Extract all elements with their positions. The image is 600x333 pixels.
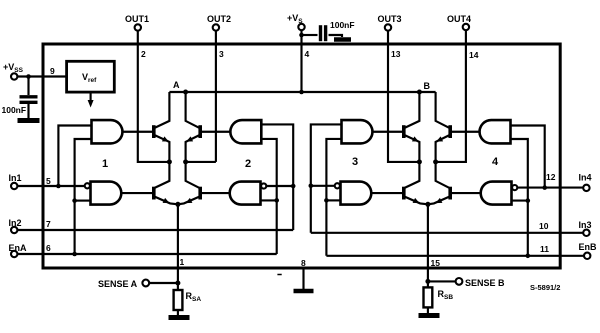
transistor Q6 base bar	[448, 125, 452, 138]
wire +Vs rail	[169, 91, 435, 93]
resistor RSA	[174, 290, 183, 310]
gate 3 upper AND	[342, 120, 373, 143]
transistor Q2 base bar	[198, 125, 202, 138]
svg-text:OUT1: OUT1	[125, 14, 149, 24]
transistor Q4 collector	[186, 162, 200, 188]
svg-text:8: 8	[301, 258, 306, 268]
arrow Q7 emitter	[413, 198, 420, 203]
wire gate3 lower output	[371, 192, 402, 194]
svg-text:S-5891/2: S-5891/2	[530, 283, 560, 292]
transistor Q3 emitter	[155, 197, 178, 205]
svg-text:EnB: EnB	[579, 242, 598, 252]
wire In1 riser	[58, 126, 91, 187]
wire cap to ground top	[329, 35, 343, 37]
transistor Q1 base bar	[152, 125, 156, 138]
wire gate4 upper output	[452, 131, 480, 133]
wire EnB gate3 lower input	[326, 199, 340, 201]
svg-text:2: 2	[141, 49, 146, 59]
wire In3 gate3 bubble input	[311, 185, 335, 187]
svg-text:100nF: 100nF	[330, 20, 355, 30]
node In1 riser	[56, 184, 61, 189]
svg-text:5: 5	[46, 176, 51, 186]
capacitor 100nF top plate2	[324, 25, 327, 41]
bubble gate 1 lower	[85, 183, 90, 188]
arrow Q4 emitter	[186, 198, 193, 203]
svg-text:1: 1	[102, 158, 108, 170]
wire EnB	[326, 255, 583, 257]
transistor Q3 base bar	[152, 187, 156, 200]
bubble gate 4 lower	[512, 185, 517, 190]
svg-text:14: 14	[469, 50, 479, 60]
node EnA gate2 branch	[274, 198, 279, 203]
transistor Q6 emitter	[436, 135, 450, 162]
wire OUT3 pin 13	[388, 31, 419, 162]
svg-text:In2: In2	[9, 218, 22, 228]
terminal In3	[583, 230, 589, 236]
transistor Q4 emitter	[178, 197, 200, 205]
node EnA gate1 branch	[72, 198, 77, 203]
svg-text:11: 11	[540, 244, 549, 254]
svg-text:2: 2	[245, 158, 251, 170]
node rail +Vs	[299, 90, 304, 95]
wire RSB to ground	[427, 307, 429, 313]
gate 3 lower AND	[341, 182, 372, 205]
ground RSA	[169, 315, 190, 320]
transistor Q8 emitter	[428, 197, 450, 205]
terminal OUT2	[213, 24, 219, 30]
node In3 gate3 branch	[309, 184, 314, 189]
transistor Q2 emitter	[186, 135, 200, 162]
transistor Q7 collector	[405, 162, 420, 188]
wire In2 gate2 bubble input	[266, 185, 293, 187]
svg-text:3: 3	[352, 156, 358, 168]
svg-text:B: B	[424, 81, 431, 91]
wire EnA gate1 lower input	[75, 200, 91, 202]
node sense A tap	[175, 281, 180, 286]
wire sense A terminal	[149, 282, 178, 284]
node A	[183, 90, 188, 95]
wire EnB gate4 lower input	[512, 200, 528, 202]
wire EnA	[18, 253, 277, 255]
transistor Q8 base bar	[448, 187, 452, 200]
wire In2	[18, 229, 294, 231]
wire OUT1 pin 2	[138, 31, 170, 162]
wire sense B pin 15	[427, 204, 429, 287]
gate 1 upper AND	[92, 120, 123, 143]
wire EnA riser	[75, 139, 92, 254]
node +Vss junction	[26, 74, 31, 79]
svg-text:4: 4	[492, 156, 499, 168]
svg-text:In1: In1	[9, 173, 22, 183]
bubble gate 2 lower	[261, 183, 266, 188]
wire ground pin 8	[302, 268, 304, 289]
svg-text:4: 4	[305, 49, 310, 59]
svg-text:SENSE B: SENSE B	[465, 278, 505, 288]
capacitor 100nF left plate1	[20, 95, 38, 98]
terminal OUT1	[135, 24, 141, 30]
terminal In1	[11, 183, 17, 189]
arrow Q8 emitter	[436, 198, 443, 203]
wire EnA riser gate2	[261, 139, 276, 254]
gate 4 lower AND	[481, 182, 512, 205]
wire pin 9	[18, 75, 67, 77]
svg-text:OUT3: OUT3	[378, 14, 402, 24]
transistor Q4 base bar	[198, 187, 202, 200]
node OUT1	[167, 159, 172, 164]
wire gate1 upper output	[123, 131, 153, 133]
wire RSA to ground	[177, 310, 179, 315]
node In4 riser	[542, 185, 547, 190]
svg-text:In3: In3	[579, 220, 592, 230]
artifact dash	[277, 274, 281, 276]
wire EnA gate2 lower input	[261, 199, 277, 201]
svg-text:3: 3	[219, 49, 224, 59]
node sense B junction	[425, 202, 430, 207]
capacitor 100nF top plate1	[319, 25, 322, 41]
wire gate1 lower output	[121, 192, 152, 194]
wire +Vss to capacitor	[27, 77, 29, 96]
IC package outline	[43, 44, 560, 268]
svg-text:EnA: EnA	[9, 243, 28, 253]
transistor Q5 collector	[405, 92, 420, 128]
arrow Q6 emitter	[436, 136, 443, 141]
svg-text:10: 10	[539, 221, 549, 231]
node In2 gate2 branch	[291, 184, 296, 189]
transistor Q8 collector	[436, 162, 450, 188]
gate 2 upper AND	[230, 120, 261, 143]
terminal EnA	[11, 251, 17, 257]
arrow Q1 emitter	[162, 136, 169, 141]
wire sense A pin 1	[177, 204, 179, 290]
terminal SENSE B	[456, 278, 463, 285]
terminal In2	[11, 227, 17, 233]
node EnA riser	[72, 252, 77, 257]
wire In3	[311, 232, 583, 234]
transistor Q7 emitter	[405, 197, 428, 205]
svg-text:100nF: 100nF	[2, 105, 27, 115]
wire In4 riser	[511, 126, 545, 188]
transistor Q1 collector	[155, 92, 170, 128]
terminal +Vss	[11, 73, 17, 79]
block Vref	[67, 61, 115, 92]
arrow Vref supply	[90, 92, 92, 101]
node OUT3	[417, 159, 422, 164]
terminal SENSE A	[142, 280, 149, 287]
terminal In4	[583, 185, 589, 191]
transistor Q6 collector	[436, 92, 450, 128]
wire In4	[517, 187, 583, 189]
terminal EnB	[584, 253, 590, 259]
transistor Q5 emitter	[405, 135, 420, 162]
transistor Q7 base bar	[402, 187, 406, 200]
wire In2 riser	[261, 124, 293, 230]
wire EnB riser gate4	[511, 139, 528, 256]
gate 2 lower AND	[230, 182, 261, 205]
node OUT4	[433, 159, 438, 164]
terminal +Vs	[298, 24, 304, 30]
gate 1 lower AND	[91, 182, 122, 205]
svg-text:A: A	[173, 80, 180, 90]
node OUT2	[183, 159, 188, 164]
svg-text:13: 13	[391, 49, 401, 59]
svg-text:9: 9	[50, 66, 55, 76]
transistor Q2 collector	[186, 92, 200, 128]
svg-text:OUT4: OUT4	[447, 14, 471, 24]
capacitor 100nF left plate2	[20, 101, 38, 104]
wire In1	[18, 185, 85, 187]
arrow Q2 emitter	[186, 136, 193, 141]
bubble gate 3 lower	[335, 183, 340, 188]
node EnB gate3 branch	[324, 198, 329, 203]
wire gate2 lower output	[202, 192, 230, 194]
wire In3 riser	[311, 124, 342, 232]
node sense B tap	[425, 279, 430, 284]
arrow Q5 emitter	[412, 136, 419, 141]
transistor Q3 collector	[155, 162, 170, 188]
gate 4 upper AND	[480, 120, 511, 143]
wire cap to ground	[27, 104, 29, 118]
wire gate4 lower output	[452, 192, 481, 194]
ground top	[334, 37, 351, 42]
wire EnB riser gate3	[326, 139, 341, 256]
node sense A junction	[175, 202, 180, 207]
wire pin 4	[300, 30, 302, 92]
node EnB riser gate4	[526, 254, 531, 259]
ground RSB	[419, 313, 440, 318]
node EnB gate4 branch	[526, 198, 531, 203]
svg-text:15: 15	[431, 258, 441, 268]
terminal OUT4	[463, 24, 469, 30]
svg-text:6: 6	[46, 243, 51, 253]
wire to bypass cap	[302, 34, 318, 36]
svg-text:In4: In4	[579, 172, 592, 182]
svg-text:OUT2: OUT2	[207, 14, 231, 24]
svg-text:1: 1	[180, 257, 185, 267]
resistor RSB	[424, 287, 433, 307]
transistor Q5 base bar	[402, 125, 406, 138]
ground left	[18, 118, 40, 123]
wire OUT2 pin 3	[186, 31, 216, 162]
arrow Q3 emitter	[163, 198, 170, 203]
transistor Q1 emitter	[155, 135, 170, 162]
node B	[417, 90, 422, 95]
wire gate3 upper output	[373, 131, 403, 133]
ground pin 8	[294, 289, 314, 294]
node +Vs cap tap	[299, 33, 304, 38]
svg-text:SENSE A: SENSE A	[98, 279, 138, 289]
svg-text:12: 12	[546, 172, 556, 182]
wire sense B terminal	[428, 280, 456, 282]
terminal OUT3	[385, 24, 391, 30]
wire OUT4 pin 14	[436, 30, 466, 162]
svg-text:7: 7	[46, 219, 51, 229]
wire gate2 upper output	[202, 131, 230, 133]
